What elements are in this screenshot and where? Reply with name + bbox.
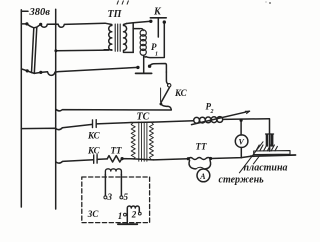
svg-text:КС: КС: [87, 131, 101, 141]
svg-text:пластина: пластина: [244, 163, 288, 174]
svg-text:ЗС: ЗС: [87, 209, 100, 219]
svg-text:1: 1: [118, 211, 123, 221]
svg-text:Р: Р: [151, 42, 157, 52]
svg-text:А: А: [199, 172, 206, 181]
svg-text:3: 3: [107, 192, 113, 202]
svg-text:V: V: [239, 138, 245, 147]
svg-text:ТС: ТС: [137, 112, 150, 123]
svg-text:КС: КС: [174, 88, 188, 98]
svg-text:К: К: [153, 7, 162, 18]
svg-text:2: 2: [210, 109, 214, 115]
svg-text:1: 1: [155, 52, 158, 58]
svg-text:ТТ: ТТ: [196, 142, 207, 152]
svg-text:2: 2: [131, 209, 137, 219]
svg-text:ТП: ТП: [108, 9, 123, 20]
svg-text:КС: КС: [87, 145, 101, 155]
svg-text:380в: 380в: [29, 7, 51, 18]
svg-text:стержень: стержень: [219, 175, 265, 186]
svg-text:5: 5: [124, 192, 129, 202]
svg-text:ТТ: ТТ: [111, 145, 122, 155]
